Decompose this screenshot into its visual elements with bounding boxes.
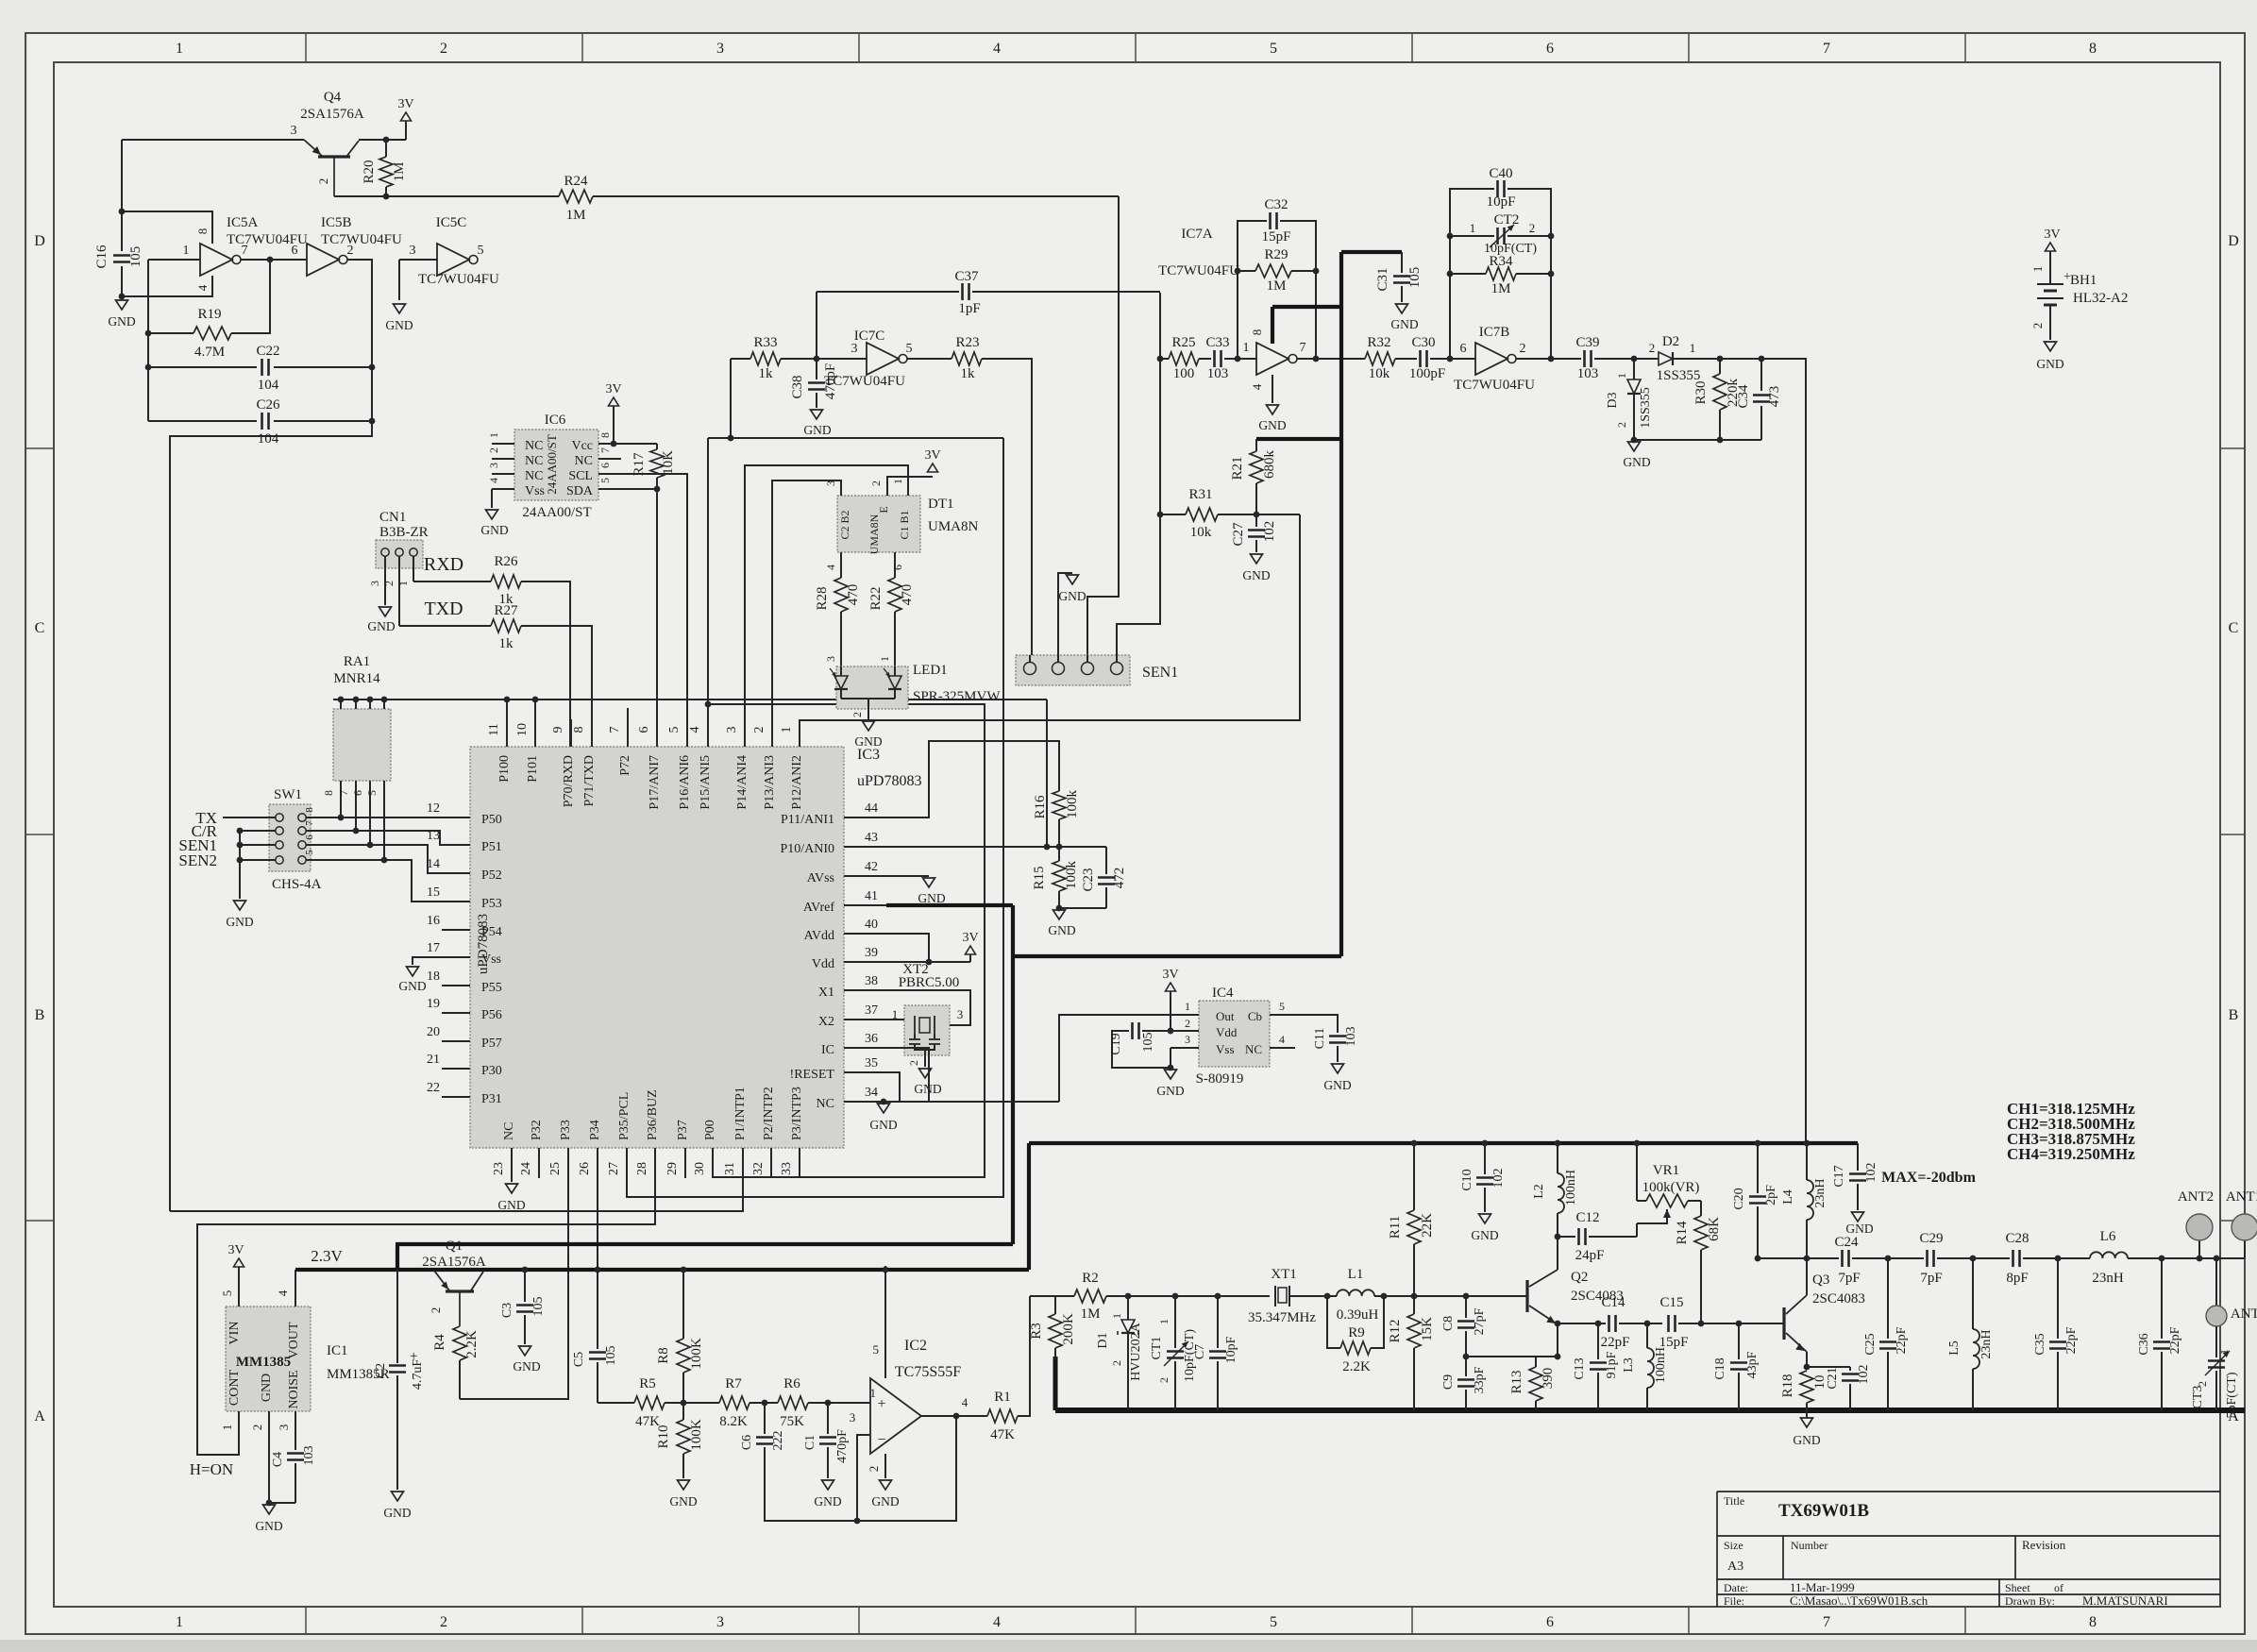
svg-text:4: 4 [993, 41, 1001, 57]
svg-text:GND: GND [226, 915, 253, 929]
svg-text:P56: P56 [481, 1008, 502, 1022]
capacitor C36 22pF [2161, 1258, 2163, 1339]
svg-text:GND: GND [854, 734, 882, 749]
resistor R29 1M [1238, 270, 1255, 272]
wire RA1 bus to IC3 P100 [506, 700, 508, 719]
svg-text:P32: P32 [530, 1120, 544, 1140]
svg-text:GND: GND [1258, 418, 1286, 432]
svg-text:25: 25 [548, 1162, 563, 1175]
wire thick to C31 [1341, 250, 1402, 254]
svg-text:R6: R6 [783, 1376, 800, 1391]
node CT2 loop left [1447, 356, 1454, 362]
svg-text:4: 4 [688, 727, 702, 733]
node L1 left [1324, 1293, 1331, 1300]
svg-text:IC: IC [821, 1043, 834, 1057]
wire RA1 bus to IC3 P101 [534, 700, 536, 719]
svg-text:C14: C14 [1601, 1295, 1625, 1310]
IC6 right pin stubs 8-7-6-5 [598, 443, 621, 445]
wire RF input line y1373 [1030, 1295, 1074, 1297]
wire L1 to R11/R12 node [1384, 1295, 1527, 1297]
svg-text:IC7B: IC7B [1479, 325, 1510, 340]
ground GND (C11) [1332, 1064, 1344, 1073]
svg-text:33: 33 [780, 1162, 794, 1175]
svg-text:TC7WU04FU: TC7WU04FU [1158, 263, 1239, 278]
wire IC3 pin26 to C5 [597, 1178, 598, 1349]
svg-text:L4: L4 [1781, 1189, 1795, 1205]
svg-text:1pF: 1pF [958, 301, 980, 316]
grid column dividers bottom band [305, 1607, 307, 1634]
svg-text:15: 15 [427, 885, 440, 900]
inverter IC5C TC7WU04FU [399, 259, 437, 261]
svg-text:GND: GND [108, 314, 135, 329]
node R29 left [1235, 268, 1241, 275]
varactor diode D1 HVU202A [1127, 1296, 1129, 1320]
svg-text:Vcc: Vcc [571, 439, 593, 453]
svg-text:75K: 75K [780, 1414, 804, 1429]
inverter IC7A TC7WU04FU [1256, 343, 1289, 375]
svg-text:Title: Title [1724, 1494, 1744, 1508]
trimmer capacitor CT2 10pF(CT) [1450, 235, 1494, 237]
svg-text:21: 21 [427, 1053, 440, 1067]
svg-text:2: 2 [1615, 422, 1628, 428]
svg-text:22pF: 22pF [2168, 1326, 2182, 1354]
node R30 bottom [1717, 437, 1724, 444]
svg-text:7: 7 [598, 447, 612, 453]
svg-text:7pF: 7pF [1920, 1271, 1942, 1286]
wire SW1 row3 to IC3 P52 [306, 845, 442, 873]
capacitor C11 103 [1329, 1035, 1346, 1037]
IC3 top pin stubs and numbers [506, 719, 508, 747]
svg-text:24AA00/ST: 24AA00/ST [522, 505, 591, 520]
svg-text:105: 105 [604, 1346, 618, 1366]
svg-text:0.39uH: 0.39uH [1337, 1307, 1379, 1323]
capacitor C29 7pF [1926, 1250, 1929, 1267]
svg-text:26: 26 [578, 1162, 592, 1175]
svg-text:2: 2 [1185, 1017, 1190, 1030]
svg-text:P57: P57 [481, 1037, 502, 1051]
svg-text:8: 8 [572, 727, 586, 733]
svg-text:102: 102 [1262, 521, 1277, 543]
svg-text:2: 2 [752, 727, 766, 733]
svg-text:100K: 100K [689, 1338, 704, 1370]
svg-text:2SA1576A: 2SA1576A [422, 1255, 486, 1270]
node C8/C9/R13 [1463, 1354, 1470, 1360]
svg-text:15pF: 15pF [1659, 1335, 1689, 1350]
svg-text:D: D [2228, 233, 2239, 249]
ground GND (IC3 pin23 NC) [511, 1178, 513, 1182]
svg-text:7: 7 [304, 820, 315, 826]
svg-text:44: 44 [865, 801, 878, 816]
svg-text:RA1: RA1 [344, 654, 370, 669]
svg-text:Vss: Vss [481, 952, 501, 967]
ground GND (SEN1 pin2) [1067, 575, 1079, 584]
svg-text:of: of [2054, 1581, 2063, 1594]
svg-text:2: 2 [250, 1424, 264, 1431]
svg-text:VIN: VIN [227, 1322, 242, 1345]
svg-text:C29: C29 [1919, 1231, 1943, 1246]
svg-text:CT2: CT2 [1494, 212, 1520, 228]
svg-text:IC5C: IC5C [436, 215, 467, 230]
svg-text:3: 3 [716, 41, 724, 57]
svg-text:C19: C19 [1109, 1033, 1123, 1054]
svg-text:GND: GND [669, 1494, 697, 1509]
wire X2 to XT2 pin1 [886, 1019, 904, 1020]
svg-text:1M: 1M [566, 208, 586, 223]
node IC7A output [1313, 356, 1320, 362]
node R6/C1 [825, 1400, 832, 1407]
svg-text:33pF: 33pF [1473, 1366, 1487, 1393]
transistor Q4 2SA1576A [318, 155, 350, 158]
svg-text:43pF: 43pF [1745, 1351, 1760, 1378]
resistor R8 100K [682, 1270, 684, 1339]
svg-text:24: 24 [519, 1162, 533, 1175]
wire D3/R30/C34 bottom rail [1634, 439, 1761, 441]
svg-text:Vdd: Vdd [812, 957, 834, 971]
wire IC3 pin25 to R4 loop [460, 1178, 568, 1399]
svg-text:2: 2 [440, 1614, 447, 1630]
resistor R19 4.7M [147, 260, 149, 421]
wire SW1 left gnd bus [239, 831, 241, 899]
svg-text:GND: GND [918, 891, 945, 905]
svg-text:1: 1 [1615, 373, 1628, 379]
svg-text:P51: P51 [481, 840, 502, 854]
wire IC5A pin8 loop [122, 211, 212, 244]
wire IC3 pin28 to CONT loop [197, 1178, 655, 1455]
svg-text:C: C [35, 620, 45, 636]
svg-text:GND: GND [869, 1118, 897, 1132]
IC6 left pin stubs 1-4 [492, 443, 514, 445]
svg-text:R21: R21 [1230, 456, 1245, 480]
svg-text:8: 8 [304, 807, 315, 813]
svg-text:3V: 3V [605, 382, 621, 396]
svg-text:24pF: 24pF [1575, 1248, 1605, 1263]
svg-text:TC7WU04FU: TC7WU04FU [418, 272, 499, 287]
wire SW1 row2 to IC3 P51 [306, 831, 442, 845]
svg-text:1: 1 [183, 244, 190, 258]
resistor R33 1k [731, 358, 750, 360]
svg-text:P50: P50 [481, 813, 502, 827]
svg-text:1: 1 [1470, 221, 1476, 235]
resistor R18 10 [1800, 1371, 1813, 1403]
svg-text:IC5A: IC5A [227, 215, 259, 230]
IC4 pin5 Cb to C11 [1270, 1014, 1295, 1016]
node D1 [1125, 1293, 1132, 1300]
svg-text:1: 1 [870, 1386, 877, 1400]
svg-text:14: 14 [427, 857, 440, 871]
svg-text:+: + [877, 1396, 885, 1412]
svg-text:15K: 15K [1420, 1317, 1435, 1341]
capacitor C6 222 [764, 1403, 766, 1434]
svg-text:8pF: 8pF [2006, 1271, 2028, 1286]
node C36 top [2159, 1256, 2165, 1262]
node C7 [1215, 1293, 1221, 1300]
svg-text:C4: C4 [271, 1452, 285, 1467]
svg-text:31: 31 [723, 1162, 737, 1175]
svg-text:22K: 22K [1420, 1213, 1435, 1238]
svg-text:M.MATSUNARI: M.MATSUNARI [2082, 1593, 2168, 1608]
XT2 crystal element [914, 1016, 916, 1035]
svg-text:34: 34 [865, 1086, 878, 1100]
svg-text:UMA8N: UMA8N [928, 519, 979, 534]
svg-text:R32: R32 [1367, 335, 1390, 350]
svg-text:P100: P100 [497, 755, 512, 783]
resistor R10 100K [682, 1403, 684, 1420]
ground GND (C1) [822, 1480, 834, 1490]
svg-text:5: 5 [304, 850, 315, 855]
svg-text:Vss: Vss [525, 484, 545, 498]
svg-text:Revision: Revision [2022, 1538, 2066, 1552]
capacitor C25 22pF [1887, 1258, 1889, 1339]
node D3 bottom [1631, 437, 1638, 444]
node Q2 emitter [1555, 1321, 1561, 1327]
svg-text:470: 470 [846, 584, 861, 606]
svg-text:C15: C15 [1659, 1295, 1683, 1310]
resistor R24 1M [559, 190, 593, 203]
svg-text:103: 103 [1344, 1027, 1358, 1047]
ground GND (BH1) [2045, 342, 2057, 351]
svg-text:3V: 3V [1162, 968, 1178, 982]
node L3 top [1644, 1321, 1651, 1327]
svg-text:105: 105 [128, 246, 143, 268]
resistor R4 2.2K [453, 1326, 466, 1360]
svg-text:103: 103 [302, 1446, 316, 1466]
svg-text:41: 41 [865, 889, 878, 903]
IC2 pin3 feedback input [857, 1435, 870, 1521]
svg-text:NC: NC [575, 454, 593, 468]
svg-text:17: 17 [427, 941, 440, 955]
wire IC4 Out to RESET net [1059, 1015, 1178, 1102]
node 3V to Vcc [611, 441, 617, 447]
svg-text:5: 5 [1270, 1614, 1277, 1630]
svg-text:XT1: XT1 [1271, 1267, 1297, 1282]
svg-text:22: 22 [427, 1081, 440, 1095]
inductor L5 23nH [1972, 1258, 1974, 1329]
svg-text:P14/ANI4: P14/ANI4 [735, 755, 750, 810]
svg-text:4.7M: 4.7M [194, 345, 225, 360]
svg-text:R29: R29 [1264, 247, 1288, 262]
ground GND (D3) [1628, 442, 1641, 451]
svg-text:C:\Masao\..\Tx69W01B.sch: C:\Masao\..\Tx69W01B.sch [1790, 1593, 1929, 1608]
svg-text:IC4: IC4 [1212, 986, 1234, 1001]
svg-text:4: 4 [1279, 1033, 1285, 1046]
svg-text:D1: D1 [1096, 1332, 1110, 1348]
svg-text:2pF: 2pF [1764, 1185, 1778, 1205]
svg-text:C26: C26 [256, 397, 280, 413]
node R25 left junction [1157, 356, 1164, 362]
svg-text:6: 6 [891, 565, 904, 570]
svg-text:TXD: TXD [424, 598, 463, 619]
svg-text:C2 B2: C2 B2 [838, 510, 851, 539]
svg-text:GND: GND [497, 1198, 525, 1212]
wire thick rail riser to RF rail [1027, 1143, 1031, 1270]
diode D2 1SS355 [1634, 358, 1659, 360]
svg-text:C30: C30 [1411, 335, 1435, 350]
capacitor C27 102 [1255, 514, 1257, 527]
inverter IC7C TC7WU04FU [867, 343, 899, 375]
resistor R16 100k [1053, 791, 1066, 819]
svg-text:R30: R30 [1693, 380, 1709, 404]
IC IC1 MM1385 regulator [226, 1306, 311, 1411]
svg-text:R1: R1 [994, 1390, 1011, 1405]
svg-text:10k: 10k [1190, 525, 1212, 540]
svg-text:1: 1 [220, 1424, 234, 1431]
node IC7C input/C38 [814, 356, 820, 362]
svg-text:Number: Number [1791, 1539, 1827, 1552]
ground GND (C3) [519, 1346, 531, 1356]
svg-text:MNR14: MNR14 [333, 671, 380, 686]
svg-text:3V: 3V [962, 931, 978, 945]
ground GND (C31) [1396, 304, 1408, 313]
svg-text:3: 3 [1185, 1033, 1190, 1046]
trimmer capacitor CT1 10pF(CT) [1174, 1296, 1176, 1348]
svg-text:2: 2 [487, 447, 500, 453]
svg-text:P37: P37 [676, 1120, 690, 1140]
svg-text:23nH: 23nH [1813, 1178, 1827, 1207]
node R30 top [1717, 356, 1724, 362]
svg-text:1SS355: 1SS355 [1639, 387, 1653, 429]
svg-text:105: 105 [531, 1297, 546, 1317]
svg-text:1k: 1k [961, 366, 976, 381]
svg-text:8: 8 [598, 432, 612, 438]
wire SEN1 pin4 riser to R25 node [1117, 293, 1160, 655]
capacitor C38 470pF [816, 359, 817, 379]
svg-text:AVss: AVss [807, 871, 834, 885]
wire emitter node to R13 [1466, 1356, 1558, 1357]
LED LED1 SPR-325MVW [836, 666, 908, 709]
capacitor C2 4.7uF polarized [396, 1270, 398, 1363]
DT1 pin2 E to 3V [887, 477, 933, 496]
node R14 bottom junction [1698, 1321, 1705, 1327]
svg-text:6: 6 [1546, 1614, 1554, 1630]
svg-text:7: 7 [1823, 41, 1830, 57]
svg-text:C32: C32 [1264, 197, 1288, 212]
svg-text:20: 20 [427, 1025, 440, 1039]
inverter IC5A TC7WU04FU [148, 259, 200, 261]
svg-text:C33: C33 [1205, 335, 1229, 350]
svg-text:R28: R28 [815, 586, 830, 610]
IC2 pin2 to GND [884, 1454, 886, 1478]
svg-text:GND: GND [1390, 317, 1418, 331]
svg-text:470: 470 [900, 584, 915, 606]
svg-text:680k: 680k [1262, 450, 1277, 480]
svg-text:IC7A: IC7A [1181, 227, 1213, 242]
svg-text:3: 3 [716, 1614, 724, 1630]
resistor R3 200K [1054, 1296, 1056, 1314]
connector SEN1 [1016, 655, 1130, 685]
svg-text:R7: R7 [725, 1376, 742, 1391]
wire Q3 emitter node [1806, 1352, 1808, 1367]
svg-text:27: 27 [607, 1162, 621, 1175]
op-amp IC2 TC75S55F [870, 1378, 921, 1454]
svg-text:C38: C38 [790, 375, 805, 398]
node C34 top [1759, 356, 1765, 362]
node L2/C12/Q2 collector [1555, 1234, 1561, 1240]
svg-text:R27: R27 [494, 603, 518, 618]
svg-text:R17: R17 [632, 452, 647, 477]
svg-text:GND: GND [1623, 455, 1650, 469]
svg-text:5: 5 [906, 342, 913, 356]
svg-text:A3: A3 [1727, 1559, 1743, 1574]
svg-text:2: 2 [2030, 323, 2045, 329]
wire lower rail y464 [708, 437, 1003, 439]
transistor array DT1 UMA8N [837, 496, 920, 552]
svg-text:8: 8 [2089, 1614, 2097, 1630]
wire IC5A pin4 loop [122, 276, 212, 296]
svg-text:22pF: 22pF [1895, 1326, 1909, 1354]
svg-text:R19: R19 [197, 307, 221, 322]
IC4 pin3 Vss [1171, 1047, 1199, 1049]
capacitor C18 43pF [1738, 1323, 1740, 1359]
grid row dividers right band [2220, 447, 2245, 449]
wire Q2 collector to L2 [1557, 1237, 1558, 1270]
svg-text:R13: R13 [1509, 1370, 1524, 1393]
svg-text:C13: C13 [1573, 1357, 1587, 1379]
svg-text:GND: GND [255, 1519, 282, 1533]
wire R25 node riser [1159, 293, 1161, 514]
capacitor C24 7pF [1841, 1250, 1844, 1267]
svg-text:3: 3 [291, 124, 297, 138]
svg-text:1: 1 [1157, 1319, 1171, 1324]
svg-text:16: 16 [427, 914, 440, 928]
DT1 top pin1 wire to IC3 P14 [745, 465, 908, 719]
svg-text:102: 102 [1864, 1163, 1878, 1183]
resistor R7 8.2K [719, 1396, 750, 1409]
resistor R23 1k [907, 358, 952, 360]
wire feedback loop to output [857, 1416, 956, 1521]
svg-text:P31: P31 [481, 1092, 502, 1106]
svg-text:104: 104 [258, 431, 279, 447]
svg-text:NC: NC [817, 1097, 834, 1111]
svg-text:H=ON: H=ON [190, 1460, 233, 1478]
diode D3 1SS355 [1633, 359, 1635, 379]
svg-text:35: 35 [865, 1056, 878, 1070]
svg-text:GND: GND [513, 1359, 540, 1374]
IC3 right pins 44-34 [844, 817, 886, 818]
svg-text:TC7WU04FU: TC7WU04FU [321, 232, 402, 247]
svg-text:C20: C20 [1732, 1188, 1746, 1209]
resistor R5 47K [634, 1396, 665, 1409]
svg-text:R24: R24 [564, 174, 588, 189]
svg-text:473: 473 [1767, 386, 1782, 408]
svg-text:5: 5 [667, 727, 682, 733]
inductor L6 23nH [2090, 1252, 2128, 1258]
wire SW1 left rows [223, 817, 276, 818]
svg-text:32: 32 [751, 1162, 766, 1175]
capacitor C30 100pF [1395, 358, 1417, 360]
svg-text:C1: C1 [803, 1435, 817, 1450]
wire IC3 Vss pin17 to GND [413, 957, 442, 965]
capacitor C23 472 [1105, 847, 1107, 874]
inductor L3 100nH [1646, 1323, 1648, 1348]
svg-text:B3B-ZR: B3B-ZR [379, 525, 429, 540]
svg-text:−: − [877, 1432, 885, 1448]
wire IC5C input stub to GND [398, 260, 400, 300]
svg-text:100k(VR): 100k(VR) [1642, 1180, 1700, 1195]
svg-text:C34: C34 [1736, 384, 1751, 409]
capacitor C32 15pF loop [1238, 221, 1267, 359]
capacitor C21 102 [1807, 1366, 1850, 1368]
ground GND (C2) [392, 1492, 404, 1501]
svg-text:RXD: RXD [424, 554, 463, 575]
svg-text:L3: L3 [1622, 1357, 1636, 1373]
MM1385 pin3 NOISE to C4 [295, 1411, 296, 1450]
svg-text:104: 104 [258, 378, 279, 393]
IC2 pin5 to 2.3V rail [884, 1266, 886, 1378]
node IC2 output [953, 1413, 960, 1420]
wire IC3 pin43 P10/ANI0 line [886, 846, 1106, 848]
capacitor C39 103 [1583, 350, 1586, 367]
svg-text:4: 4 [1250, 383, 1264, 390]
